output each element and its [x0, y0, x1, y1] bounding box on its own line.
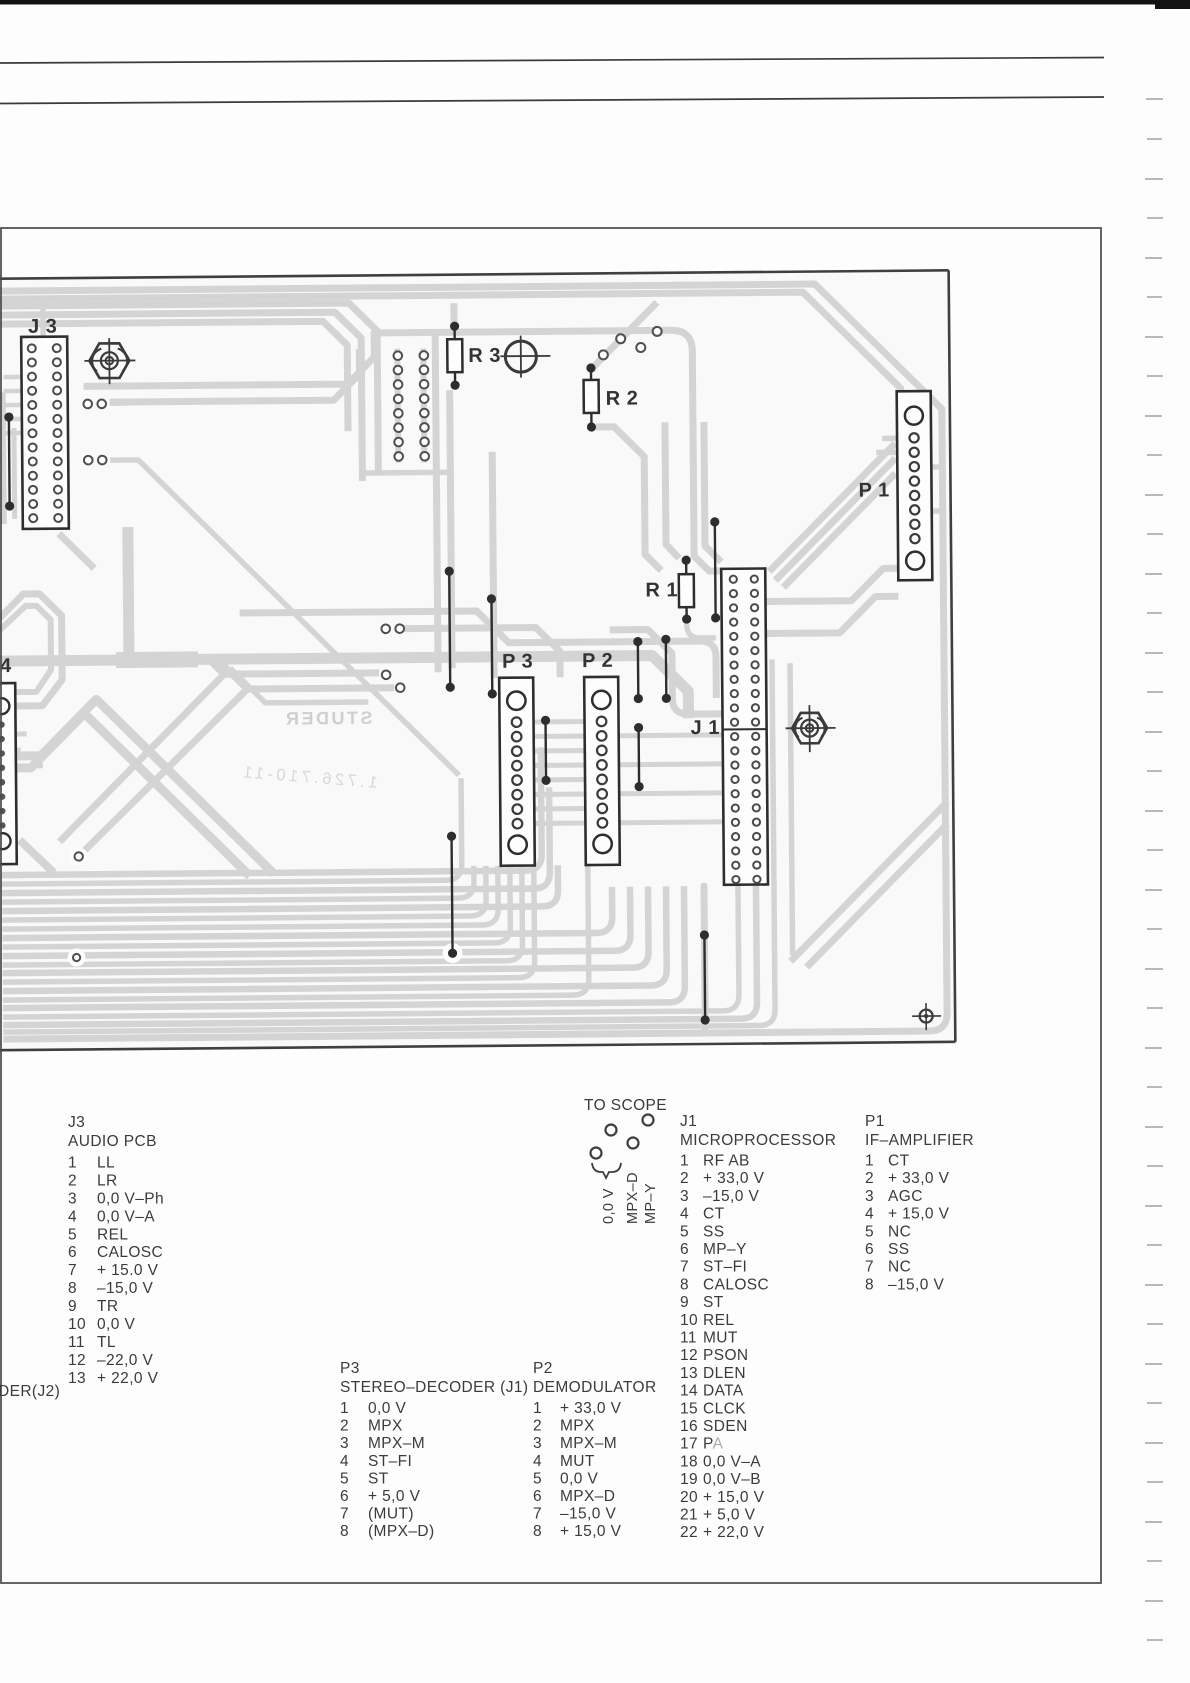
svg-text:PA: PA	[703, 1436, 724, 1453]
copper traces (component side, light grey)	[0, 283, 949, 1039]
wire trace: R1 bottom link	[687, 624, 716, 638]
wire trace: vertical right of R1 b	[704, 422, 721, 562]
board outline bottom edge	[0, 1042, 955, 1050]
svg-text:3: 3	[865, 1188, 874, 1205]
wire trace: perimeter guard	[0, 283, 947, 1039]
svg-text:REL: REL	[97, 1226, 128, 1243]
svg-text:DLEN: DLEN	[703, 1365, 746, 1382]
wire trace: octagon left diagonal inner	[80, 689, 248, 853]
svg-text:–15,0 V: –15,0 V	[97, 1280, 153, 1297]
svg-text:REL: REL	[703, 1312, 734, 1329]
connector J1	[721, 568, 768, 884]
header rule 1	[0, 58, 1104, 64]
connector P1	[897, 391, 933, 580]
wire trace: pad column right vertical	[420, 348, 427, 462]
mounting hole M3	[912, 1003, 941, 1030]
alignment target T1	[500, 335, 550, 377]
wire trace: pad stub J3 right	[110, 400, 128, 406]
pin list P2 DEMODULATOR	[533, 1360, 657, 1540]
svg-text:6: 6	[533, 1488, 542, 1505]
pin list J3 AUDIO PCB	[68, 1114, 164, 1387]
wire trace: pad column bottom link	[364, 469, 450, 475]
svg-text:0,0 V: 0,0 V	[560, 1470, 598, 1487]
svg-text:+ 15,0 V: + 15,0 V	[888, 1206, 950, 1223]
svg-text:MUT: MUT	[560, 1453, 595, 1470]
svg-text:6: 6	[680, 1241, 689, 1258]
wire trace: bottom right diagonal a	[789, 802, 948, 961]
svg-text:9: 9	[680, 1294, 689, 1311]
svg-text:MPX–M: MPX–M	[560, 1435, 617, 1452]
wire trace: octagon left diagonal outer	[58, 674, 225, 841]
wire trace: P1 pin stub b	[876, 449, 906, 455]
svg-text:+ 22,0 V: + 22,0 V	[97, 1370, 159, 1387]
svg-text:20: 20	[680, 1489, 698, 1506]
wire trace: J4 pin stubs	[1, 734, 43, 766]
wire W10	[710, 517, 720, 622]
svg-text:1: 1	[680, 1153, 689, 1170]
svg-text:TL: TL	[97, 1334, 116, 1351]
wire W4	[447, 832, 457, 958]
connector J4	[0, 683, 17, 864]
svg-text:14: 14	[680, 1383, 698, 1400]
via pad column A	[394, 351, 404, 460]
svg-text:7: 7	[865, 1259, 874, 1276]
svg-text:19: 19	[680, 1471, 698, 1488]
wire trace: P1 pin stub d	[920, 508, 940, 514]
svg-text:AGC: AGC	[888, 1188, 923, 1205]
svg-text:4: 4	[865, 1206, 874, 1223]
svg-text:J 3: J 3	[28, 316, 58, 338]
svg-text:+ 22,0 V: + 22,0 V	[703, 1524, 765, 1541]
svg-text:+ 33,0 V: + 33,0 V	[560, 1400, 622, 1417]
wire trace: J3 left pin stubs	[4, 377, 26, 433]
svg-text:8: 8	[340, 1523, 349, 1540]
svg-text:11: 11	[680, 1330, 697, 1347]
svg-text:R 1: R 1	[645, 579, 678, 601]
svg-text:SS: SS	[703, 1223, 724, 1240]
wire trace: fat vertical from J3	[128, 527, 129, 655]
wire trace: octagon outer top	[209, 658, 379, 674]
wire trace: pad column left vertical	[394, 349, 401, 463]
svg-text:2: 2	[533, 1418, 542, 1435]
svg-text:15: 15	[680, 1400, 698, 1417]
wire trace: R2 diagonal to top bundle	[589, 302, 658, 371]
wire W6	[633, 637, 643, 703]
wire trace: P1 diagonal c	[782, 473, 896, 587]
mounting hole M1	[84, 338, 135, 384]
wire W8	[634, 723, 644, 791]
svg-text:0,0 V–Ph: 0,0 V–Ph	[97, 1190, 164, 1207]
connector P2	[584, 677, 620, 865]
svg-text:1: 1	[865, 1153, 874, 1170]
svg-text:P 1: P 1	[858, 479, 889, 501]
svg-text:LL: LL	[97, 1155, 115, 1172]
wire trace: J4 chevron outer	[0, 698, 274, 876]
svg-text:17: 17	[680, 1436, 698, 1453]
svg-text:MPX: MPX	[368, 1418, 403, 1435]
svg-text:ST–FI: ST–FI	[703, 1259, 747, 1276]
svg-text:TR: TR	[97, 1298, 118, 1315]
svg-text:MP–Y: MP–Y	[703, 1241, 747, 1258]
board outline right edge	[949, 270, 956, 1041]
svg-text:2: 2	[68, 1173, 77, 1190]
resistor R1	[679, 555, 695, 623]
svg-text:CALOSC: CALOSC	[97, 1244, 163, 1261]
svg-text:3: 3	[680, 1188, 689, 1205]
svg-text:13: 13	[68, 1370, 86, 1387]
svg-text:3: 3	[68, 1190, 77, 1207]
pin list P3 STEREO-DECODER	[340, 1360, 528, 1540]
svg-text:CT: CT	[888, 1153, 910, 1170]
svg-text:4: 4	[533, 1453, 542, 1470]
svg-text:21: 21	[680, 1507, 698, 1524]
wire trace: spine junction wedge	[116, 651, 198, 668]
wire trace: upper-mid line with pads	[404, 627, 560, 678]
wire W5	[541, 716, 551, 785]
svg-text:ST: ST	[368, 1470, 389, 1487]
page frame border	[1, 228, 1101, 1583]
wire trace: J4 ring inner	[0, 606, 51, 692]
svg-text:SDEN: SDEN	[703, 1418, 748, 1435]
svg-text:2: 2	[865, 1170, 874, 1187]
wire W9	[700, 930, 710, 1024]
svg-text:R 3: R 3	[468, 345, 501, 367]
wire trace: second vertical left of J3	[11, 428, 17, 519]
wire trace: vertical feed left of R1	[665, 422, 679, 558]
svg-text:0,0 V: 0,0 V	[368, 1400, 406, 1417]
svg-text:PSON: PSON	[703, 1347, 749, 1364]
svg-text:5: 5	[68, 1226, 77, 1243]
svg-text:5: 5	[680, 1223, 689, 1240]
svg-text:8: 8	[533, 1523, 542, 1540]
svg-text:SS: SS	[888, 1241, 909, 1258]
svg-text:1: 1	[340, 1400, 349, 1417]
svg-text:0,0 V–A: 0,0 V–A	[97, 1208, 155, 1225]
svg-text:P1: P1	[865, 1113, 885, 1130]
pin list J1 MICROPROCESSOR	[680, 1113, 836, 1541]
svg-text:–15,0 V: –15,0 V	[560, 1506, 616, 1523]
svg-text:7: 7	[533, 1506, 542, 1523]
svg-text:12: 12	[68, 1352, 86, 1369]
via pads near J3	[83, 400, 106, 465]
svg-text:MPX–D: MPX–D	[625, 1172, 641, 1224]
wire trace: J4 ring outer	[0, 594, 62, 707]
svg-text:P 3: P 3	[502, 651, 533, 673]
wire trace: upper-mid long run	[240, 609, 717, 702]
svg-text:3: 3	[340, 1435, 349, 1452]
wire trace: mount hole bundle lower	[109, 349, 359, 402]
svg-text:J 1: J 1	[691, 717, 721, 739]
svg-text:7: 7	[340, 1506, 349, 1523]
svg-text:DATA: DATA	[703, 1383, 744, 1400]
wire trace: top bundle 2	[0, 291, 901, 428]
svg-text:MUT: MUT	[703, 1330, 738, 1347]
svg-text:CT: CT	[703, 1206, 725, 1223]
svg-text:(MUT): (MUT)	[368, 1506, 414, 1523]
svg-text:+ 5,0 V: + 5,0 V	[368, 1488, 421, 1505]
wire trace: R3 top stub	[450, 303, 457, 322]
svg-text:0,0 V–A: 0,0 V–A	[703, 1453, 761, 1470]
wire trace: long vertical x494	[492, 452, 494, 678]
scope brace	[592, 1163, 621, 1178]
svg-text:J1: J1	[680, 1113, 697, 1130]
svg-text:4: 4	[68, 1208, 77, 1225]
svg-text:+ 33,0 V: + 33,0 V	[888, 1170, 950, 1187]
svg-text:11: 11	[68, 1334, 85, 1351]
wire trace: long vertical x438	[435, 334, 438, 672]
svg-text:RF AB: RF AB	[703, 1153, 750, 1170]
header rule 2	[0, 97, 1104, 104]
svg-text:DER(J2): DER(J2)	[0, 1383, 60, 1400]
wire trace: upper-mid to J1	[610, 629, 723, 715]
svg-text:DEMODULATOR: DEMODULATOR	[533, 1379, 657, 1396]
svg-text:7: 7	[68, 1262, 77, 1279]
wire trace: bottom bundle fan	[0, 659, 793, 1032]
wire trace: P1 diagonal b	[774, 458, 896, 580]
svg-text:6: 6	[68, 1244, 77, 1261]
svg-text:2: 2	[680, 1170, 689, 1187]
svg-text:MPX–D: MPX–D	[560, 1488, 615, 1505]
svg-text:MPX: MPX	[560, 1418, 595, 1435]
svg-text:NC: NC	[888, 1259, 911, 1276]
svg-text:6: 6	[340, 1488, 349, 1505]
wire trace: R2 bottom run to vertical	[596, 426, 661, 571]
pad keepout halos	[67, 844, 463, 966]
svg-text:STUDER: STUDER	[283, 708, 372, 729]
svg-text:12: 12	[680, 1347, 698, 1364]
svg-text:STEREO–DECODER (J1): STEREO–DECODER (J1)	[340, 1379, 528, 1396]
wire trace: P1 diagonal a	[768, 443, 896, 571]
wire trace: J3 bottom diagonal stub	[59, 533, 94, 568]
binder tick marks right edge	[1145, 99, 1163, 1640]
svg-text:–15,0 V: –15,0 V	[888, 1276, 944, 1293]
wire trace: P1 pin stub a	[882, 435, 906, 441]
svg-text:18: 18	[680, 1453, 698, 1470]
wire trace: octagon inner top	[220, 661, 394, 690]
svg-text:0,0 V: 0,0 V	[97, 1316, 135, 1333]
svg-text:CLCK: CLCK	[703, 1400, 746, 1417]
svg-text:(MPX–D): (MPX–D)	[368, 1523, 435, 1540]
top black bar	[0, 0, 1190, 9]
connector J3	[21, 337, 69, 529]
wire trace: P1 pin stub c	[919, 464, 939, 470]
wire trace: J3 left vertical	[3, 392, 4, 524]
svg-text:+ 5,0 V: + 5,0 V	[703, 1507, 756, 1524]
svg-text:+ 15,0 V: + 15,0 V	[703, 1489, 765, 1506]
svg-text:CALOSC: CALOSC	[703, 1276, 769, 1293]
svg-text:MP–Y: MP–Y	[643, 1183, 659, 1224]
wire trace: P1 lower feed b	[765, 596, 898, 633]
svg-text:ST: ST	[703, 1294, 724, 1311]
wire W7	[661, 635, 671, 703]
svg-text:5: 5	[340, 1470, 349, 1487]
svg-text:16: 16	[680, 1418, 698, 1435]
svg-text:8: 8	[68, 1280, 77, 1297]
svg-text:–15,0 V: –15,0 V	[703, 1188, 759, 1205]
svg-text:MICROPROCESSOR: MICROPROCESSOR	[680, 1132, 836, 1149]
svg-text:J3: J3	[68, 1114, 85, 1131]
svg-text:MPX–M: MPX–M	[368, 1435, 425, 1452]
svg-text:5: 5	[533, 1470, 542, 1487]
svg-text:13: 13	[680, 1365, 698, 1382]
svg-text:ST–FI: ST–FI	[368, 1453, 412, 1470]
wire trace: fat horizontal spine	[0, 655, 689, 724]
wire W3	[487, 594, 497, 698]
wire trace: P1 lower feed a	[765, 568, 898, 601]
wire trace: top bundle 4 down flank	[0, 312, 362, 484]
svg-text:R 2: R 2	[606, 388, 639, 410]
svg-text:–22,0 V: –22,0 V	[97, 1352, 153, 1369]
svg-text:8: 8	[865, 1276, 874, 1293]
svg-text:6: 6	[865, 1241, 874, 1258]
board outline top edge	[0, 270, 949, 278]
svg-text:TO SCOPE: TO SCOPE	[584, 1097, 667, 1114]
wire W1	[4, 412, 14, 510]
svg-text:22: 22	[680, 1524, 698, 1541]
svg-text:8: 8	[680, 1276, 689, 1293]
wire trace: top bundle 5	[0, 321, 348, 434]
mounting hole M2	[785, 705, 835, 752]
connector P3	[499, 678, 535, 866]
pin list P1 IF-AMPLIFIER	[865, 1113, 974, 1293]
svg-text:+ 15.0 V: + 15.0 V	[97, 1262, 159, 1279]
wire trace: J3 top stub	[40, 300, 46, 337]
scope test point pads	[591, 1115, 654, 1159]
board substrate	[0, 270, 955, 1050]
svg-text:3: 3	[533, 1435, 542, 1452]
svg-text:+ 15,0 V: + 15,0 V	[560, 1523, 622, 1540]
svg-text:LR: LR	[97, 1173, 118, 1190]
svg-text:IF–AMPLIFIER: IF–AMPLIFIER	[865, 1132, 974, 1149]
wire trace: long 45deg diagonal	[110, 457, 459, 778]
svg-text:+ 33,0 V: + 33,0 V	[703, 1170, 765, 1187]
svg-text:10: 10	[68, 1316, 86, 1333]
wire trace: top bundle 3 down to pad column	[0, 303, 378, 476]
svg-text:2: 2	[340, 1418, 349, 1435]
wire W2	[445, 567, 455, 692]
svg-text:P3: P3	[340, 1360, 360, 1377]
via pads diagonal near R2	[599, 327, 662, 360]
wire trace: octagon third line	[230, 667, 368, 703]
via pads mid board	[70, 624, 407, 961]
svg-text:1: 1	[68, 1155, 77, 1172]
wire trace: P3-P2 row stripes	[517, 720, 736, 823]
svg-text:P 2: P 2	[582, 650, 613, 672]
svg-text:5: 5	[865, 1223, 874, 1240]
svg-text:0,0 V: 0,0 V	[601, 1188, 617, 1224]
via pad column B	[420, 351, 430, 460]
svg-text:P2: P2	[533, 1360, 553, 1377]
wire trace: mid horizontal to right bend	[374, 330, 721, 574]
svg-text:9: 9	[68, 1298, 77, 1315]
svg-text:10: 10	[680, 1312, 698, 1329]
svg-text:NC: NC	[888, 1223, 911, 1240]
svg-text:1: 1	[533, 1400, 542, 1417]
resistor R2	[583, 363, 599, 431]
svg-text:0,0 V–B: 0,0 V–B	[703, 1471, 761, 1488]
svg-text:4: 4	[680, 1206, 689, 1223]
wire trace: long vertical x452 under R3	[450, 390, 452, 668]
svg-text:7: 7	[680, 1259, 689, 1276]
resistor R3	[447, 322, 463, 390]
wire trace: bottom right diagonal b	[805, 824, 948, 967]
wire trace: J4 corner stub to bundle	[20, 840, 54, 873]
svg-text:4: 4	[340, 1453, 349, 1470]
wire trace: J4 chevron inner	[0, 712, 249, 878]
svg-text:AUDIO PCB: AUDIO PCB	[68, 1133, 157, 1150]
wire trace: mount hole bundle upper	[83, 331, 374, 387]
wire trace: center pad riser	[704, 886, 705, 1028]
